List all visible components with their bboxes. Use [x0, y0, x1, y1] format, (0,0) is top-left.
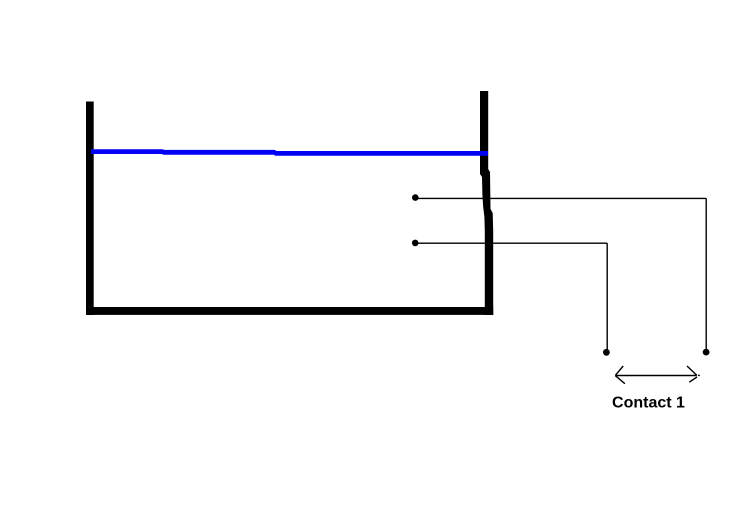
tank left wall: [86, 102, 94, 316]
tank right wall: [480, 91, 493, 315]
water level (blue line): [91, 152, 488, 154]
left terminal (node): [603, 349, 610, 356]
tank bottom wall: [86, 307, 493, 315]
right terminal (node): [703, 349, 710, 356]
wire: left vertical drop to left terminal: [606, 243, 608, 351]
svg-text:Contact 1: Contact 1: [612, 395, 685, 412]
upper electrode tip (node): [412, 194, 419, 201]
wire: lower electrode horizontal run: [418, 242, 608, 244]
wire: upper electrode horizontal run: [418, 197, 707, 199]
wire: right vertical drop to right terminal: [705, 198, 707, 351]
lower electrode tip (node): [412, 240, 419, 247]
gap arrow shaft: [615, 375, 697, 377]
gap arrow right head: [687, 366, 700, 382]
gap arrow left head: [615, 366, 625, 384]
